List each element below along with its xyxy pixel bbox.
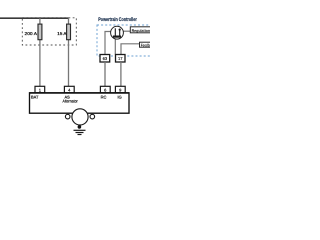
wire fuse1 lead	[39, 18, 41, 86]
wire fuse2 lead	[68, 18, 70, 86]
svg-text:RC: RC	[101, 94, 107, 99]
wire top edge emphasis	[30, 92, 130, 94]
svg-text:IG: IG	[118, 94, 122, 99]
alternator pin 6	[100, 86, 110, 93]
svg-text:63: 63	[103, 56, 108, 61]
svg-text:Powertrain Controller: Powertrain Controller	[98, 17, 137, 23]
transistor Q1 (driver in circle)	[111, 26, 124, 39]
fuse F2 15A	[67, 24, 71, 40]
feedback box	[140, 42, 154, 47]
alternator pin 4	[64, 86, 74, 93]
pin 63 connector	[100, 55, 110, 63]
node shaft dot	[78, 125, 82, 129]
pin 17 connector	[116, 55, 126, 63]
regulation box	[130, 27, 153, 33]
alternator pin 9	[115, 86, 125, 93]
svg-text:17: 17	[118, 56, 123, 61]
wire transistor to regulation box	[123, 30, 130, 32]
wire B+ bus	[0, 17, 69, 19]
wire transistor emitter to pin 17	[114, 39, 116, 55]
brush right	[90, 114, 95, 119]
wire pin63 to RC	[104, 62, 106, 86]
fuse F1 200A	[38, 24, 42, 40]
alternator box	[30, 93, 130, 113]
svg-text:200 A: 200 A	[25, 31, 38, 36]
brush left	[65, 114, 70, 119]
svg-text:Regulation: Regulation	[132, 28, 150, 33]
svg-text:BAT: BAT	[31, 94, 39, 99]
powertrain controller box (dashed blue)	[97, 25, 153, 56]
fuse box (power distribution box, dashed)	[22, 18, 76, 45]
wire pin17 to IG	[120, 62, 122, 86]
alternator pin 1	[35, 86, 45, 93]
wire feedback to pin 17	[121, 44, 140, 55]
svg-text:Alternator: Alternator	[63, 99, 79, 104]
rotor circle	[72, 109, 88, 125]
ground	[74, 130, 86, 134]
wire to transistor base	[105, 32, 111, 55]
svg-text:Feedback: Feedback	[141, 43, 150, 48]
svg-text:15 A: 15 A	[57, 31, 67, 36]
